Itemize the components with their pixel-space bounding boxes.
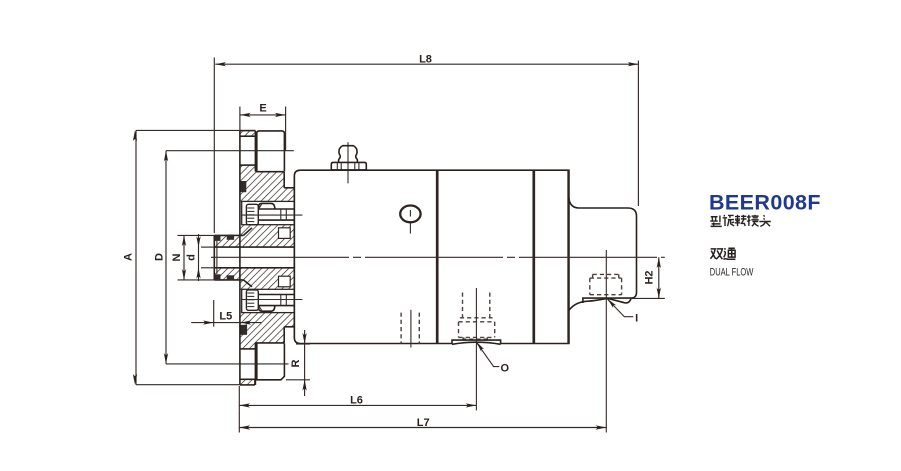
body right edge thick: [567, 170, 569, 343]
svg-text:H2: H2: [644, 270, 656, 284]
dimension D: [153, 151, 293, 364]
top cap: [240, 131, 285, 172]
centerline main: [211, 256, 665, 258]
svg-text:L8: L8: [419, 53, 432, 65]
sight circle: [400, 206, 420, 234]
svg-text:I: I: [635, 312, 638, 324]
svg-text:DUAL FLOW: DUAL FLOW: [710, 266, 754, 278]
flange hatch regions: [214, 131, 294, 385]
grease fitting: [331, 142, 366, 183]
svg-text:R: R: [290, 359, 302, 367]
leader O: [476, 342, 509, 375]
port O boss: [452, 340, 501, 344]
port O dashed: [459, 293, 495, 341]
hidden small port: [401, 310, 419, 348]
dimension L8: [214, 53, 638, 233]
dimension d: [186, 234, 215, 281]
dimension N: [171, 235, 214, 280]
flange outlines: [240, 131, 294, 385]
svg-text:O: O: [501, 362, 510, 374]
centerline port I: [605, 250, 607, 433]
svg-text:L5: L5: [219, 311, 232, 323]
dimension H2: [631, 257, 665, 298]
svg-text:E: E: [259, 102, 266, 114]
dimension A: [122, 130, 240, 384]
dimension L5: [191, 300, 261, 327]
dimension L7: [239, 410, 606, 432]
svg-text:D: D: [153, 253, 165, 261]
svg-text:d: d: [186, 254, 198, 261]
bottom cap: [240, 343, 285, 385]
centerline port O: [475, 288, 477, 410]
svg-text:L7: L7: [417, 417, 430, 429]
screw upper: [242, 203, 302, 224]
leader I: [607, 299, 638, 325]
port I dashed: [590, 274, 622, 294]
svg-text:BEER008F: BEER008F: [709, 190, 821, 214]
body main outline: [294, 170, 569, 343]
dimension R: [286, 330, 310, 396]
dimension L6: [239, 386, 476, 410]
chinese line2: 双通: [710, 248, 735, 260]
svg-text:N: N: [171, 253, 183, 261]
white cavities and squares: [242, 201, 295, 312]
pipe O-ring seals: [215, 235, 235, 281]
bore white channel: [214, 247, 294, 268]
chinese line1: 型旋转接头: [710, 215, 771, 227]
right shaft outline: [569, 198, 637, 311]
flange face seals: [240, 181, 246, 192]
screw lower: [242, 290, 302, 311]
svg-text:L6: L6: [350, 395, 363, 407]
bore lines: [214, 246, 294, 248]
pipe outline: [214, 228, 252, 287]
body division line 1: [436, 171, 439, 343]
svg-text:A: A: [122, 253, 134, 261]
body division line 2: [532, 171, 535, 343]
dimension E: [240, 102, 286, 150]
